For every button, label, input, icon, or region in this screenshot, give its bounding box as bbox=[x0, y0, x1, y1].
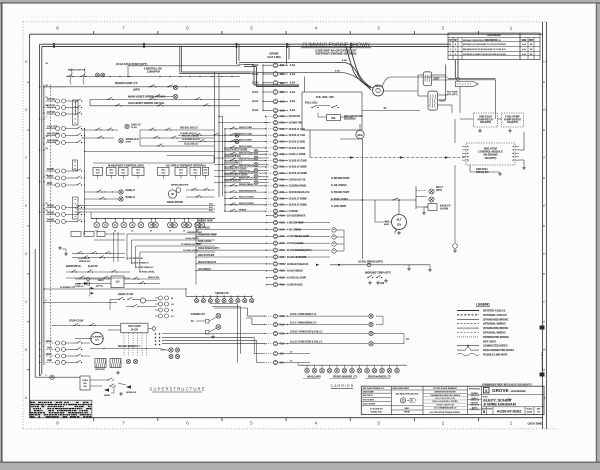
svg-text:7.5A: 7.5A bbox=[280, 204, 285, 207]
svg-text:FUL. SOL. 12V: FUL. SOL. 12V bbox=[316, 95, 334, 99]
svg-text:BACK-UP: BACK-UP bbox=[440, 205, 451, 208]
svg-text:TURN: TURN bbox=[82, 380, 88, 382]
legend (STANDARD) WIRING bbox=[457, 318, 479, 320]
svg-text:TOLERANCES: FRAC DEC ANGLE: TOLERANCES: FRAC DEC ANGLE bbox=[430, 394, 461, 397]
svg-text:7.5A: 7.5A bbox=[280, 153, 285, 156]
lamp carrier E31 bbox=[389, 365, 391, 368]
svg-text:7.5A: 7.5A bbox=[280, 134, 285, 137]
solenoid L30 shutdown bbox=[327, 115, 341, 121]
svg-text:JW: JW bbox=[530, 49, 533, 51]
wire left risers gauge group bbox=[195, 223, 197, 285]
wire dotted continuation bbox=[89, 283, 91, 298]
module backup alarm bbox=[428, 204, 437, 211]
wire battery cable strands to starter bbox=[346, 47, 370, 87]
fuse F40 turn 7.5A bbox=[273, 314, 277, 318]
fuse F45 tail lts bbox=[273, 360, 277, 364]
svg-text:7.5A: 7.5A bbox=[280, 315, 285, 318]
fuse F40 bottom bbox=[50, 375, 54, 379]
svg-text:SOLENOID: SOLENOID bbox=[344, 119, 356, 121]
fuse F15 7.5A bbox=[273, 165, 277, 169]
svg-text:(OPT): (OPT) bbox=[436, 190, 442, 192]
wire stop lt sw bbox=[69, 320, 81, 322]
lamp carrier E32 bbox=[396, 365, 398, 368]
wire battery bus right drop bbox=[454, 60, 456, 79]
module A6 bbox=[175, 167, 187, 175]
svg-text:REVISIONS: REVISIONS bbox=[487, 34, 501, 37]
wire 4GA run A bbox=[239, 62, 345, 64]
fuse F16 7.5A bbox=[273, 171, 277, 175]
svg-text:7.5A: 7.5A bbox=[280, 242, 285, 245]
svg-text:VLV: VLV bbox=[136, 173, 140, 175]
svg-text:MAP: MAP bbox=[47, 182, 53, 185]
wire heavy feed pair to fuse panel bbox=[244, 64, 254, 66]
lamp cluster P8 bbox=[153, 222, 159, 228]
svg-text:REAR STEER HS: REAR STEER HS bbox=[198, 261, 217, 264]
svg-text:(OPT): (OPT) bbox=[126, 142, 132, 144]
fuse F9 7.5A bbox=[273, 127, 277, 131]
relay K1 (run relay) bbox=[423, 72, 432, 86]
fuse F20 7.5A bbox=[273, 196, 277, 200]
svg-text:7.5A: 7.5A bbox=[280, 159, 285, 162]
switch dimmer bbox=[132, 306, 133, 307]
lamp cluster P12 bbox=[186, 222, 192, 228]
svg-text:7.5A: 7.5A bbox=[280, 178, 285, 181]
wire feeder 180 bbox=[179, 46, 181, 74]
wire cluster risers bbox=[90, 212, 92, 219]
fuse F5 10A bbox=[273, 99, 278, 104]
svg-text:15 SUS LT DOME: 15 SUS LT DOME bbox=[289, 198, 308, 200]
svg-text:SOL (OPT): SOL (OPT) bbox=[447, 94, 458, 96]
svg-text:G: G bbox=[543, 108, 546, 112]
node ALT label bbox=[385, 221, 388, 223]
fuse F4 15A bbox=[273, 90, 278, 95]
svg-text:RELEASE NOTE OF BOOM HOSE TO C: RELEASE NOTE OF BOOM HOSE TO CORR ECN bbox=[463, 48, 506, 51]
lamp pair PANEL bbox=[56, 213, 60, 217]
wire 52 run line bbox=[362, 110, 420, 112]
svg-text:17 DRIVE-PANEL: 17 DRIVE-PANEL bbox=[289, 185, 308, 188]
svg-text:NONE: NONE bbox=[527, 412, 533, 414]
svg-text:7.5A: 7.5A bbox=[280, 215, 285, 218]
svg-text:S. OIL PRESS: S. OIL PRESS bbox=[331, 184, 347, 187]
lamp center B/U LT CONS bbox=[214, 170, 250, 172]
svg-text:WIPER+WASHER: WIPER+WASHER bbox=[171, 184, 189, 187]
node U2 pins right bbox=[513, 146, 514, 147]
fuse F28 7.5A bbox=[273, 255, 277, 259]
svg-text:X.XX = 1.5,0.25 XX = .75 DEG: X.XX = 1.5,0.25 XX = .75 DEG bbox=[432, 401, 458, 403]
switch S1 battery disconnect bbox=[67, 76, 68, 77]
legend FUSIBLE LINK WIRE bbox=[457, 353, 479, 355]
lamp aux pair 362.4 bbox=[56, 360, 60, 364]
lamp cluster P4 bbox=[121, 222, 127, 228]
svg-text:8 GA: 8 GA bbox=[290, 91, 296, 94]
fuse F30 7.5A bbox=[273, 269, 277, 273]
resistor R2 bbox=[110, 359, 121, 368]
ground midpoint 3 bbox=[385, 279, 387, 281]
wire vertical x362 bbox=[361, 139, 363, 259]
svg-text:F: F bbox=[25, 156, 27, 160]
svg-text:7.5A: 7.5A bbox=[280, 263, 285, 266]
lamp pair S/W WPR bbox=[56, 141, 60, 145]
fuse F11 7.5A bbox=[273, 139, 277, 143]
svg-text:(BAT): (BAT) bbox=[384, 223, 390, 226]
svg-text:AUX: AUX bbox=[47, 340, 52, 343]
wire fuse feed risers bbox=[262, 65, 264, 110]
svg-text:ON (OPT): ON (OPT) bbox=[507, 121, 518, 124]
wire controllers feed bbox=[93, 162, 214, 164]
wire bottom 1 line bbox=[35, 376, 80, 378]
svg-text:10 GA: 10 GA bbox=[252, 91, 259, 94]
fuse F1 30A bbox=[273, 63, 278, 68]
svg-text:7.5A: 7.5A bbox=[280, 185, 285, 188]
svg-text:CONV/PRM: CONV/PRM bbox=[147, 71, 160, 74]
node GROVE logo bbox=[483, 388, 489, 393]
svg-text:13 REAR AXLE: 13 REAR AXLE bbox=[287, 284, 304, 287]
legend NOT USED bbox=[483, 341, 493, 343]
fuse F2 30A bbox=[273, 72, 278, 77]
svg-text:X.XXX = .005 TY .38: X.XXX = .005 TY .38 bbox=[436, 404, 453, 406]
relay K2 (start relay) bbox=[428, 91, 438, 110]
alternator G1 bbox=[392, 215, 407, 230]
svg-text:14 GA HTR A/C: 14 GA HTR A/C bbox=[224, 155, 241, 158]
svg-text:WMS 4-94: WMS 4-94 bbox=[470, 408, 480, 411]
svg-text:SPARE: SPARE bbox=[239, 208, 247, 211]
wire relay to pump circuit bbox=[459, 87, 461, 113]
svg-text:RUN REGULATE: RUN REGULATE bbox=[239, 189, 257, 192]
svg-text:VLV: VLV bbox=[204, 173, 208, 175]
lamp spare 7 bbox=[237, 296, 239, 298]
svg-text:WIPER MOTOR: WIPER MOTOR bbox=[167, 202, 184, 204]
svg-text:AUX HOIST SPEED AIR SOL: AUX HOIST SPEED AIR SOL bbox=[128, 101, 165, 105]
lamp center CAB LT CONS bbox=[214, 176, 250, 178]
svg-text:19 AUX WINCH: 19 AUX WINCH bbox=[287, 270, 303, 273]
node lower harness labels bbox=[127, 258, 142, 260]
svg-text:X29: X29 bbox=[380, 282, 385, 285]
svg-text:10 ETHER SOLCD: 10 ETHER SOLCD bbox=[182, 139, 201, 141]
svg-text:(STANDARD) WIRING: (STANDARD) WIRING bbox=[483, 327, 509, 330]
fuse F23 7.5A bbox=[273, 220, 277, 224]
node general notes block bbox=[30, 400, 92, 418]
lamp cluster P9 bbox=[168, 222, 174, 228]
lamp pair 115 OP bbox=[56, 106, 60, 110]
svg-text:RESISTOR: RESISTOR bbox=[95, 369, 105, 371]
svg-text:7.5A: 7.5A bbox=[280, 270, 285, 273]
lamp flood lamps bbox=[173, 85, 177, 89]
svg-text:7.5A: 7.5A bbox=[280, 277, 285, 280]
fuse F17 7.5A bbox=[273, 177, 277, 181]
svg-text:AUX: AUX bbox=[47, 346, 52, 349]
svg-text:18 REAR STEER HS: 18 REAR STEER HS bbox=[287, 263, 309, 266]
svg-text:VLV: VLV bbox=[193, 173, 197, 175]
wire rows y234-240 bbox=[105, 233, 125, 235]
svg-text:1 WATER TEMP: 1 WATER TEMP bbox=[187, 231, 203, 234]
svg-text:PRESS SW: PRESS SW bbox=[476, 171, 489, 174]
lamp cluster P2 bbox=[103, 222, 109, 228]
svg-text:20 TACH/DRIVER: 20 TACH/DRIVER bbox=[287, 215, 306, 218]
svg-text:TERMINATED WIRING: TERMINATED WIRING bbox=[483, 336, 509, 339]
motor M1 starter bbox=[373, 85, 384, 96]
svg-text:A/C HTR & THERMST OPTIONAL: A/C HTR & THERMST OPTIONAL bbox=[166, 163, 207, 167]
node terminal cluster bbox=[109, 76, 110, 77]
wire 4GA run B bbox=[256, 72, 344, 74]
relay K4 fuel pump motor (opt) bbox=[502, 113, 524, 127]
svg-text:REAR MARKER LTS: REAR MARKER LTS bbox=[368, 376, 391, 379]
lamp turn E12 bbox=[369, 331, 373, 335]
module engine shutdown solenoid group bbox=[302, 92, 362, 130]
svg-text:HEAD LT SW: HEAD LT SW bbox=[118, 293, 134, 296]
svg-text:RPM LT SW: RPM LT SW bbox=[148, 277, 159, 279]
svg-text:LH: LH bbox=[116, 280, 120, 284]
node carrier lamp labels bbox=[307, 376, 318, 378]
lamp pair DEF BLWR bbox=[56, 134, 60, 138]
svg-text:14 GA CIG LTR: 14 GA CIG LTR bbox=[224, 179, 241, 182]
wire superstructure ground bus bbox=[34, 249, 36, 377]
svg-text:CAD-I DWG: CAD-I DWG bbox=[527, 422, 542, 426]
lamp carrier E25 bbox=[344, 365, 346, 368]
svg-text:7.5A: 7.5A bbox=[280, 235, 285, 238]
svg-text:30A: 30A bbox=[280, 64, 285, 67]
lamp cluster P5 bbox=[130, 222, 136, 228]
svg-text:APPROVALS: APPROVALS bbox=[469, 387, 481, 390]
svg-text:7.5A: 7.5A bbox=[280, 121, 285, 124]
svg-text:SUS LT DOME: SUS LT DOME bbox=[239, 165, 254, 167]
wire bottom lamp bus bbox=[298, 364, 407, 366]
svg-text:H/O SOL SOLCD: H/O SOL SOLCD bbox=[180, 128, 198, 130]
lamp spare 8 bbox=[244, 296, 246, 298]
svg-text:CUMMINS/DETROIT 6BT-5.9/CAT 31: CUMMINS/DETROIT 6BT-5.9/CAT 3116 W/OPTS bbox=[482, 383, 532, 386]
svg-text:115 OP: 115 OP bbox=[47, 111, 55, 114]
wire cluster bus bbox=[91, 218, 215, 220]
switch washer rows bbox=[186, 189, 215, 191]
svg-text:MATL: MATL bbox=[405, 407, 411, 410]
svg-text:10A: 10A bbox=[280, 100, 285, 103]
svg-text:BATTERY CABLES: BATTERY CABLES bbox=[483, 310, 506, 313]
svg-text:10A: 10A bbox=[280, 109, 285, 112]
svg-text:G: G bbox=[485, 389, 488, 393]
horn H1 bbox=[104, 388, 109, 392]
svg-text:14 SUS LT DOME: 14 SUS LT DOME bbox=[289, 166, 308, 169]
svg-text:SIG: SIG bbox=[83, 383, 87, 385]
svg-text:SUS LT CAB: SUS LT CAB bbox=[239, 132, 252, 135]
fuse F13 7.5A bbox=[273, 152, 277, 156]
svg-text:HORN: HORN bbox=[104, 395, 111, 397]
svg-text:4 WORK LTS: 4 WORK LTS bbox=[191, 313, 206, 316]
lamp resistor out bbox=[126, 359, 130, 363]
wire fuse B feeders bbox=[214, 72, 216, 163]
node midpoint temp opt bbox=[365, 272, 388, 274]
svg-text:(OPT'L): (OPT'L) bbox=[96, 286, 103, 288]
svg-text:F: F bbox=[543, 156, 545, 160]
wire heavy feed lower pair bbox=[254, 84, 299, 86]
svg-text:OIL PRESS: OIL PRESS bbox=[198, 227, 210, 229]
wire bus taps bbox=[43, 86, 45, 88]
svg-text:7.5A: 7.5A bbox=[280, 228, 285, 231]
wire spare feed bbox=[185, 289, 187, 296]
svg-text:15 GA: 15 GA bbox=[131, 126, 137, 129]
terminal strip TB1 bbox=[73, 100, 79, 125]
lamp turn E13 bbox=[369, 342, 373, 346]
node junction column bbox=[155, 333, 157, 335]
ground horn bbox=[120, 392, 122, 394]
svg-text:21 HYD OIL TEMP: 21 HYD OIL TEMP bbox=[287, 278, 307, 280]
svg-text:ELEC SCHEM: ELEC SCHEM bbox=[363, 404, 376, 406]
svg-text:FUEL LEVEL: FUEL LEVEL bbox=[198, 241, 212, 243]
svg-text:(OPT): (OPT) bbox=[133, 89, 140, 92]
svg-text:G: G bbox=[25, 108, 28, 112]
node header aux hoist controllers bbox=[112, 164, 141, 166]
ground midpoint 1 bbox=[369, 281, 371, 283]
lamp center CIG LTR bbox=[214, 182, 250, 184]
svg-text:ALARM: ALARM bbox=[440, 207, 448, 210]
svg-text:JW: JW bbox=[530, 54, 533, 56]
svg-text:DOME LT: DOME LT bbox=[126, 190, 137, 192]
lamp fuel solcd 2 bbox=[235, 139, 239, 143]
fuse F31 7.5A bbox=[273, 276, 277, 280]
lamp spare 5 bbox=[223, 296, 225, 298]
ground work lts bbox=[212, 335, 214, 337]
lamp cluster P10 bbox=[172, 222, 178, 228]
lamp carrier E30 bbox=[381, 365, 383, 368]
svg-text:TELE SOLCD: TELE SOLCD bbox=[184, 144, 199, 146]
svg-text:LO OIL PRESS (OPT): LO OIL PRESS (OPT) bbox=[358, 261, 383, 264]
svg-text:10 FUEL SOLCD: 10 FUEL SOLCD bbox=[180, 133, 197, 135]
svg-text:10 L.R. TURN-STOP & TAIL LT: 10 L.R. TURN-STOP & TAIL LT bbox=[290, 341, 323, 344]
lamp turn E10 bbox=[369, 314, 373, 318]
module A8 bbox=[203, 167, 209, 175]
switch S2 bbox=[80, 76, 81, 77]
legend NON-CONNECTED WIRES bbox=[457, 349, 466, 351]
wire A-lines bbox=[76, 205, 215, 207]
svg-text:ALT: ALT bbox=[396, 218, 402, 222]
svg-text:1: 1 bbox=[450, 44, 451, 46]
lamp cluster P13 bbox=[195, 222, 201, 228]
svg-text:10 R.R. TURN-STOP & TAIL LT: 10 R.R. TURN-STOP & TAIL LT bbox=[290, 330, 323, 333]
switch S3 key start row bbox=[44, 86, 240, 88]
svg-text:115 OP: 115 OP bbox=[47, 98, 55, 101]
switch S41 pressure bbox=[367, 263, 371, 267]
svg-text:SUS LT DOME: SUS LT DOME bbox=[239, 203, 254, 205]
node fuel sol texts bbox=[447, 91, 456, 93]
svg-text:PANEL: PANEL bbox=[47, 204, 55, 207]
node title block bbox=[361, 386, 544, 414]
lamp cluster P14 bbox=[199, 222, 205, 228]
svg-text:8 & P 4 RES: 8 & P 4 RES bbox=[267, 56, 281, 59]
ground U2 bbox=[523, 166, 525, 168]
svg-text:14 GA CAB LT CONS: 14 GA CAB LT CONS bbox=[224, 173, 248, 176]
svg-text:16 LOW STEER LT: 16 LOW STEER LT bbox=[135, 267, 154, 269]
svg-text:SUS LT BHD: SUS LT BHD bbox=[239, 140, 252, 142]
svg-text:W: W bbox=[171, 192, 174, 196]
svg-text:OVER SPEED (OPT): OVER SPEED (OPT) bbox=[198, 248, 220, 250]
svg-text:(CONT`D): (CONT`D) bbox=[74, 285, 84, 288]
svg-text:8 GA: 8 GA bbox=[290, 64, 296, 67]
fuse F44 stop lts bbox=[273, 352, 277, 356]
wire LH left leads bbox=[75, 278, 111, 280]
svg-text:NON-CONNECTED WIRES: NON-CONNECTED WIRES bbox=[483, 349, 514, 352]
wire LH right leads bbox=[124, 278, 160, 280]
svg-text:RMTE: RMTE bbox=[98, 280, 104, 282]
lamp carrier E21 bbox=[314, 365, 316, 368]
horn H2 bbox=[126, 385, 131, 389]
svg-text:4 GA: 4 GA bbox=[342, 59, 347, 62]
svg-text:10 GA: 10 GA bbox=[252, 109, 259, 112]
legend CONNECTED WIRES bbox=[457, 345, 479, 347]
svg-text:SOL: SOL bbox=[331, 117, 336, 120]
svg-text:(STANDARD) WIRING: (STANDARD) WIRING bbox=[483, 318, 509, 321]
fuse F32 7.5A bbox=[273, 283, 277, 287]
wire 180-bus bend to fuse feed bbox=[250, 71, 256, 73]
wire gauge harness to cluster bbox=[127, 233, 215, 235]
svg-text:13 TRANS OIL TEMP: 13 TRANS OIL TEMP bbox=[287, 235, 310, 238]
lamp aux pair 343 bbox=[56, 341, 60, 345]
svg-text:WMS 4-94: WMS 4-94 bbox=[470, 399, 480, 402]
svg-text:15 FUEL LEVEL: 15 FUEL LEVEL bbox=[183, 250, 199, 252]
node cluster labels bbox=[96, 230, 98, 232]
lamp carrier E23 bbox=[329, 365, 331, 368]
svg-text:& WIRE DIAGRAM: & WIRE DIAGRAM bbox=[483, 402, 516, 406]
lamp pair CAB LTG bbox=[56, 127, 60, 131]
svg-text:MAIN HOIST SPEED AIR SOL: MAIN HOIST SPEED AIR SOL bbox=[128, 95, 166, 99]
svg-text:12V: 12V bbox=[95, 340, 99, 342]
switch S31 bbox=[331, 107, 332, 108]
svg-text:10A: 10A bbox=[280, 361, 285, 364]
fuse F12 7.5A bbox=[273, 146, 277, 150]
node projection symbol bbox=[400, 398, 405, 403]
svg-text:2 SPARE: 2 SPARE bbox=[289, 210, 299, 213]
svg-text:10 GA: 10 GA bbox=[252, 100, 259, 103]
node conv out bbox=[152, 327, 156, 331]
svg-text:OPTIONAL CABLES: OPTIONAL CABLES bbox=[483, 314, 507, 317]
svg-text:15 SUS LT BHD: 15 SUS LT BHD bbox=[289, 148, 306, 150]
svg-text:ON (OPT): ON (OPT) bbox=[485, 156, 497, 160]
svg-text:MAIN HOIST CONTROLLERS: MAIN HOIST CONTROLLERS bbox=[108, 163, 144, 167]
svg-text:15 SPARE LTS: 15 SPARE LTS bbox=[60, 286, 75, 289]
svg-text:3RD ANGLE PROJECTION: 3RD ANGLE PROJECTION bbox=[395, 393, 419, 396]
svg-text:7.5A: 7.5A bbox=[280, 128, 285, 131]
svg-text:8 GA: 8 GA bbox=[290, 109, 296, 112]
ground backup alarm bbox=[423, 211, 425, 213]
module A3 bbox=[119, 167, 129, 175]
svg-text:SUS LT BHD: SUS LT BHD bbox=[239, 146, 252, 148]
wire starter to relay bbox=[384, 90, 419, 92]
ground for K4 bbox=[509, 129, 511, 131]
svg-text:7.5A: 7.5A bbox=[280, 210, 285, 213]
svg-text:30A: 30A bbox=[280, 73, 285, 76]
svg-text:LEGEND: LEGEND bbox=[476, 302, 490, 306]
lamp turn E11 bbox=[369, 322, 373, 326]
lamp spare 6 bbox=[230, 296, 232, 298]
svg-text:24-12V: 24-12V bbox=[131, 328, 139, 331]
lamp cluster P1 bbox=[94, 222, 100, 228]
fuse F14 7.5A bbox=[273, 158, 277, 162]
module A4 bbox=[132, 167, 144, 175]
svg-text:ELEV/TR: ELEV/TR bbox=[88, 266, 98, 268]
wire fuse col dotted riser bbox=[266, 117, 268, 209]
lamp pair MAP bbox=[56, 183, 60, 187]
fuse F41 turn 7.5A bbox=[273, 322, 277, 326]
svg-text:16 SUS LP DOME: 16 SUS LP DOME bbox=[289, 173, 308, 175]
fuse F19 7.5A bbox=[273, 190, 277, 194]
svg-text:30A: 30A bbox=[280, 82, 285, 85]
wire row y289 to spare bbox=[44, 288, 186, 290]
node revision table bbox=[448, 33, 540, 60]
svg-text:.XX = UNMARKED DIM .02: .XX = UNMARKED DIM .02 bbox=[434, 407, 457, 410]
wire turn riser v4 bbox=[251, 318, 253, 325]
node manual shutdown knob bbox=[356, 130, 364, 138]
fuse F7 7.5A bbox=[273, 114, 277, 118]
svg-text:4 OIL PRESS: 4 OIL PRESS bbox=[186, 237, 200, 240]
svg-text:FSCM: FSCM bbox=[487, 409, 493, 411]
node battery terminal marks bbox=[53, 43, 55, 48]
